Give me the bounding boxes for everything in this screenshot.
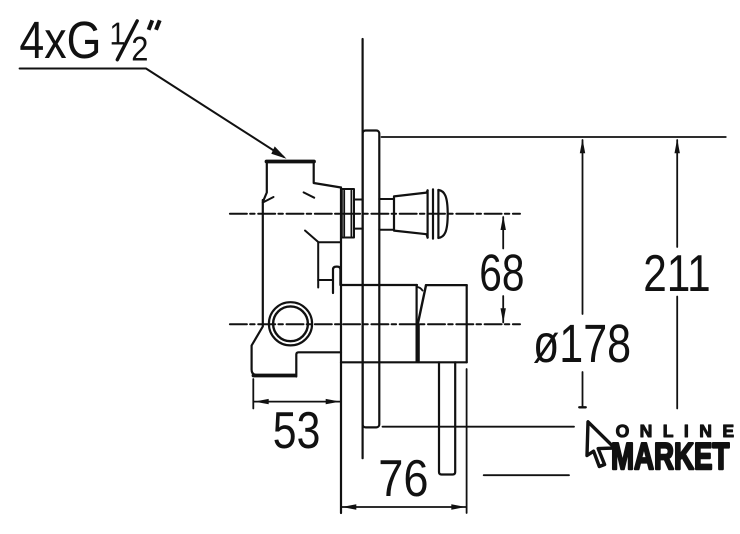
body right edge / 76 left extension line [340, 188, 342, 514]
svg-text:MARKET: MARKET [611, 435, 729, 477]
body inner horizontal edge [318, 279, 333, 281]
handle lever tilted edge [418, 285, 426, 324]
dimension o178 top arrow [580, 139, 585, 154]
dimension 53 left arrow [254, 399, 269, 404]
double prime (inch mark) [149, 20, 160, 30]
stem neck right of plate [379, 199, 394, 230]
dimension 211 line upper segment [676, 140, 678, 247]
valve body top inlet stub thick top edge [267, 160, 315, 164]
leader arrowhead [271, 146, 286, 158]
upper centerline (top port axis) [230, 213, 520, 215]
outlet port circle outer [269, 302, 312, 345]
dimension 68 upper arrow [501, 216, 506, 231]
dimension 68 line lower segment [502, 296, 504, 323]
label 4xG 1/2 inch thread callout text [19, 11, 148, 70]
escutcheon block bottom edge [341, 361, 467, 363]
lower reference line (211 extent) [484, 474, 569, 476]
handle lever fillet curve [417, 287, 423, 291]
top port collar [342, 189, 354, 238]
wall plate (escutcheon back plate) [363, 131, 380, 428]
diverter knob cone [394, 190, 428, 237]
body lower right chamfer [305, 231, 341, 243]
left chamfer notch tick [263, 197, 274, 203]
dimension 53 left extension line [252, 379, 254, 409]
svg-text:211: 211 [643, 245, 710, 303]
svg-text:ø178: ø178 [533, 314, 631, 374]
dimension o178 line upper segment [582, 140, 584, 314]
outlet port circle inner [273, 306, 308, 341]
lower centerline (outlet axis) [230, 323, 520, 325]
escutcheon block right edge [466, 285, 468, 362]
svg-text:2: 2 [131, 31, 148, 69]
handle escutcheon block top edge [341, 284, 467, 286]
dimension 76 left arrow [342, 504, 357, 509]
dimension 76 line [342, 506, 466, 508]
valve body outline left side [252, 162, 295, 376]
collar neck (between collar and plate) [354, 200, 363, 229]
cartridge tab [333, 267, 340, 293]
lever rod (handle pointing down) [439, 362, 455, 474]
dimension 76 right arrow [451, 504, 466, 509]
knob end cap [438, 190, 447, 238]
dimension 68 lower arrow [501, 308, 506, 323]
valve body bottom step [296, 352, 341, 376]
svg-text:76: 76 [378, 450, 428, 508]
wall line / extension through plate [362, 39, 364, 458]
svg-text:53: 53 [273, 402, 321, 460]
top reference line (wall surface level) [382, 136, 726, 138]
76 right extension line [466, 369, 468, 513]
dimension o178 line lower segment [582, 372, 584, 407]
dimension o178 end tick [579, 406, 585, 408]
body inner vertical edge [317, 242, 319, 287]
dimension 68 line upper segment [502, 217, 504, 249]
leader line from 4xG callout [20, 69, 284, 157]
plate bottom reference line (o178 extent) [383, 426, 575, 428]
handle lever thick lower edge [417, 325, 420, 362]
dimension 211 line lower segment [676, 297, 678, 409]
fraction slash of 1/2 [117, 21, 137, 60]
dimension 211 top arrow [675, 139, 680, 154]
dimension 53 line [254, 401, 340, 403]
valve body thick bottom edge [254, 374, 296, 378]
handle lever front edge vertical [416, 285, 418, 362]
svg-text:68: 68 [479, 244, 524, 302]
right chamfer notch tick [304, 192, 315, 197]
collar inner chamfer lines [343, 191, 345, 237]
svg-text:4xG: 4xG [19, 11, 101, 70]
logo cursor arrow icon [587, 422, 615, 467]
knob rib lines [428, 189, 439, 238]
valve body right side of inlet stub [314, 162, 341, 188]
dimension 53 right arrow [326, 399, 341, 404]
